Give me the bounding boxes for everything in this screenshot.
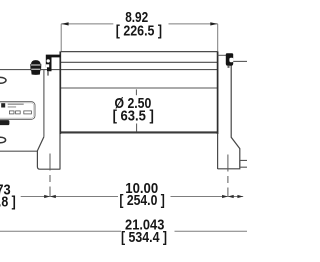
svg-text:[ 18.8 ]: [ 18.8 ]: [0, 193, 16, 209]
wire: drum top line: [61, 87, 218, 89]
wire: base thick line: [60, 131, 218, 133]
dimension line 21.043: [0, 230, 247, 232]
wire: motor top / upper rail line: [0, 69, 218, 71]
dark connector bar below label (cut at left edge): [0, 120, 9, 125]
left foot outline: [37, 137, 60, 169]
oval boss lower (cut at left edge): [0, 137, 6, 143]
left foot centerline (dashed): [49, 154, 51, 197]
right support top edge: [218, 54, 226, 56]
svg-text:[ 254.0 ]: [ 254.0 ]: [119, 192, 164, 208]
arrows at left foot centerline: [44, 195, 243, 198]
wire: top tie bar bottom line: [61, 61, 218, 63]
drum centerline (dashed, below text): [136, 124, 138, 132]
dimension 8.92 [226.5] lines: [61, 24, 218, 51]
oval boss upper (cut at left edge): [0, 77, 6, 83]
right side short bar to image edge: [233, 60, 247, 62]
svg-text:[ 534.4 ]: [ 534.4 ]: [121, 229, 167, 245]
motor bottom line: [0, 150, 37, 152]
clutch lever bracket with pivot hole: [46, 55, 61, 76]
clutch knob: [30, 60, 41, 75]
dimension 8.92 arrowheads: [61, 22, 218, 25]
right foot flange (cut off at image edge): [240, 160, 247, 167]
right support right edge and foot: [218, 64, 240, 169]
svg-text:[ 226.5 ]: [ 226.5 ]: [116, 22, 162, 38]
wire: top tie bar top line: [61, 51, 218, 53]
wire: right foot left edge: [217, 134, 219, 170]
wire: right support plate vertical: [217, 51, 219, 134]
drum centerline (dashed, above text): [135, 89, 137, 95]
dimension line 0.73 / 10.00: [21, 196, 244, 198]
wire: left foot right edge: [59, 134, 61, 170]
motor warning label: [0, 102, 35, 120]
motor right edge: [43, 70, 45, 137]
right foot centerline (dashed): [227, 155, 229, 198]
gear housing cap (top right): [226, 53, 234, 68]
wire: left support plate vertical: [59, 51, 61, 134]
svg-text:[ 63.5 ]: [ 63.5 ]: [113, 107, 154, 124]
